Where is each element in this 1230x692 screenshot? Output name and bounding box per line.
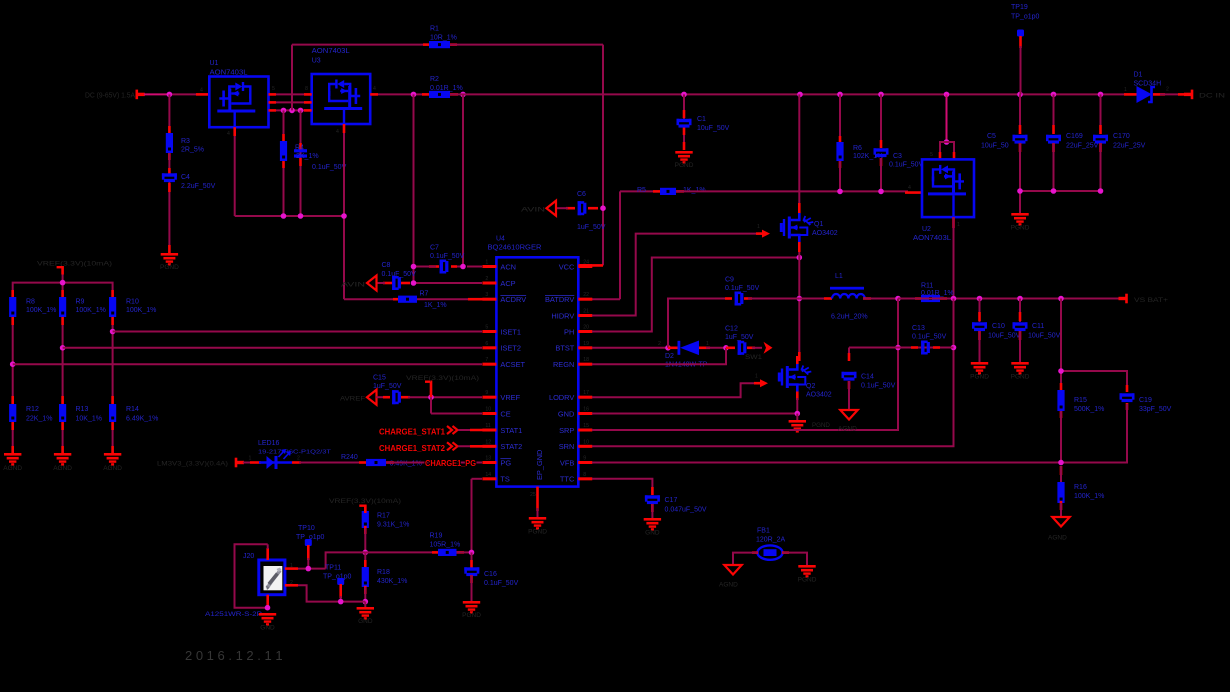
wire: R14 to ground (112, 422, 114, 453)
node: C6 tap on VCC column (600, 205, 606, 211)
ground AGND below R16 (open) (1048, 517, 1070, 542)
capacitor C19 (1120, 393, 1172, 413)
svg-text:2R_5%: 2R_5% (181, 147, 204, 154)
svg-text:500K_1%: 500K_1% (1074, 406, 1104, 413)
svg-text:1uF_50V: 1uF_50V (577, 224, 606, 231)
capacitor C6 (577, 191, 606, 231)
wire: C9 to switch node (744, 297, 799, 300)
svg-text:22uF_25V: 22uF_25V (1113, 143, 1146, 150)
svg-text:AGND: AGND (838, 426, 857, 433)
capacitor C169 (1046, 94, 1099, 191)
capacitor C9 (725, 277, 760, 306)
svg-text:VREF(3.3V)(10mA): VREF(3.3V)(10mA) (37, 261, 112, 268)
svg-text:R15: R15 (1074, 397, 1087, 404)
test point TP19 (1011, 4, 1040, 94)
svg-text:R6: R6 (853, 145, 862, 152)
ground PGND below U4 (528, 517, 547, 536)
wire: REGN to bootstrap diode (578, 348, 726, 364)
svg-text:PH: PH (564, 327, 574, 336)
wire: cap ground rail (1020, 191, 1101, 213)
svg-text:5: 5 (485, 325, 488, 331)
svg-text:FB1: FB1 (757, 528, 770, 535)
svg-text:AVIN: AVIN (341, 282, 365, 289)
svg-text:Q2: Q2 (806, 383, 815, 390)
svg-text:U4: U4 (496, 236, 505, 243)
port VS BAT (1119, 294, 1169, 304)
svg-text:R18: R18 (377, 569, 390, 576)
svg-text:5: 5 (930, 152, 933, 158)
svg-text:10R_1%: 10R_1% (430, 35, 457, 42)
svg-text:2: 2 (297, 456, 300, 462)
wire: switch node vertical (798, 258, 800, 362)
junction dots on link rows (281, 108, 304, 114)
svg-text:1uF_50V: 1uF_50V (373, 383, 402, 390)
node: R18 bottom junction (363, 599, 369, 605)
svg-text:SRN: SRN (559, 442, 575, 451)
svg-text:100K_1%: 100K_1% (126, 307, 156, 314)
svg-text:GND: GND (645, 530, 660, 537)
wire: ACP sense vertical (413, 94, 415, 283)
wire: VCC column from R1 net (579, 45, 603, 266)
wire: R15 column from battery rail (1060, 299, 1062, 463)
svg-text:R10: R10 (126, 299, 139, 306)
Q2 gate pin arrow (754, 374, 768, 388)
svg-text:R4: R4 (295, 145, 304, 152)
wire: R9 column (62, 317, 64, 404)
svg-text:R240: R240 (341, 454, 358, 461)
svg-text:BQ24610RGER: BQ24610RGER (488, 245, 542, 252)
svg-text:R11: R11 (921, 283, 933, 290)
svg-text:C7: C7 (430, 245, 439, 252)
wire: U1-U3 link row 3 (269, 109, 312, 112)
svg-text:VREF(3.3V)(10mA): VREF(3.3V)(10mA) (329, 498, 401, 505)
svg-text:2.2uF_50V: 2.2uF_50V (181, 183, 216, 190)
svg-text:R3: R3 (181, 138, 190, 145)
test point TP10 (296, 525, 325, 569)
svg-text:0.047uF_50V: 0.047uF_50V (665, 507, 707, 514)
port SW1 (745, 342, 773, 361)
svg-text:R12: R12 (26, 406, 39, 413)
svg-text:C9: C9 (725, 277, 734, 284)
wire: C6 to AVIN port (556, 207, 598, 210)
wire: C3 branch (880, 94, 882, 191)
ground PGND below C4 (160, 253, 179, 271)
ground PGND below C11 (1011, 362, 1030, 381)
connector J20 (205, 553, 293, 618)
capacitor C170 (1093, 94, 1146, 191)
svg-text:REGN: REGN (553, 360, 574, 369)
svg-text:33pF_50V: 33pF_50V (1139, 406, 1172, 413)
junction dots cap ground rail (1017, 188, 1103, 194)
svg-text:PGND: PGND (675, 162, 694, 169)
wire: LODRV to Q2 gate (578, 383, 760, 397)
svg-text:1: 1 (755, 374, 758, 380)
wire: gate rail of U1/U3 to ACDRV (235, 124, 400, 299)
svg-text:GND: GND (358, 618, 373, 625)
resistor R6 (836, 142, 883, 161)
svg-text:C5: C5 (987, 133, 996, 140)
wire: EP pad to ground (536, 487, 539, 517)
test point TP11 (323, 565, 352, 602)
svg-text:14: 14 (485, 472, 491, 478)
ground PGND below C16 (462, 601, 481, 619)
svg-text:2: 2 (1166, 87, 1169, 93)
junction dots on gate rail (281, 213, 347, 219)
svg-text:VS BAT+: VS BAT+ (1134, 297, 1168, 304)
wire: R13 to ground (62, 422, 64, 453)
svg-text:0.1uF_50V: 0.1uF_50V (382, 271, 417, 278)
svg-text:LM3V3_(3.3V)(0.4A): LM3V3_(3.3V)(0.4A) (157, 461, 228, 468)
svg-text:2: 2 (485, 276, 488, 282)
svg-text:18: 18 (583, 357, 589, 363)
svg-text:HIDRV: HIDRV (551, 311, 574, 320)
node: input junction at R3 column (167, 92, 173, 98)
svg-text:5: 5 (272, 86, 275, 92)
wire: ACP row (414, 282, 497, 285)
svg-text:TP19: TP19 (1011, 4, 1028, 11)
svg-text:10: 10 (583, 439, 589, 445)
svg-text:0.1uF_50V: 0.1uF_50V (430, 253, 465, 260)
svg-text:AVIN: AVIN (521, 207, 545, 214)
wire: R10 column (112, 317, 114, 404)
svg-text:430K_1%: 430K_1% (377, 578, 407, 585)
svg-text:DC IN: DC IN (1199, 93, 1225, 100)
svg-text:EP_GND: EP_GND (535, 450, 544, 480)
resistor R11 battery shunt (915, 283, 954, 303)
svg-text:21: 21 (583, 309, 589, 315)
wire: HIDRV to Q1 gate (578, 234, 762, 316)
svg-text:BATDRV: BATDRV (545, 295, 574, 304)
svg-text:VCC: VCC (559, 262, 575, 271)
ground AGND below R13 (53, 453, 72, 472)
svg-text:VREF(3.3V)(10mA): VREF(3.3V)(10mA) (406, 375, 479, 382)
svg-text:22K_1%: 22K_1% (26, 416, 52, 423)
wire: TS pin to thermistor network (472, 479, 497, 553)
port VREF(3.3V)(10mA) at R17 (329, 498, 401, 512)
svg-text:R9: R9 (76, 299, 85, 306)
wire: U1-U3 link row 2 (269, 101, 312, 104)
svg-text:PG: PG (500, 458, 511, 467)
wire: R7 to ACDRV pin (417, 298, 483, 300)
svg-text:100K_1%: 100K_1% (76, 307, 106, 314)
svg-text:0.1uF_50V: 0.1uF_50V (889, 162, 924, 169)
net label CHARGE1_STAT1 (379, 426, 496, 437)
svg-text:2 0 1 6 . 1 2 . 1 1: 2 0 1 6 . 1 2 . 1 1 (185, 648, 283, 663)
svg-text:TP10: TP10 (298, 525, 315, 532)
svg-text:TP11: TP11 (325, 565, 341, 572)
wire: FB1 left to AGND (733, 553, 758, 565)
svg-text:10: 10 (485, 407, 491, 413)
LED LED16 (243, 440, 332, 469)
wire: SRP sense (578, 299, 898, 431)
svg-text:C170: C170 (1113, 133, 1130, 140)
svg-text:ISET2: ISET2 (500, 344, 521, 353)
svg-text:1: 1 (706, 341, 709, 347)
node: SW/L1/C9 junction (797, 296, 803, 302)
svg-text:AON7403L: AON7403L (312, 48, 350, 55)
svg-text:C13: C13 (912, 325, 925, 332)
svg-text:C12: C12 (725, 326, 738, 333)
svg-text:AGND: AGND (3, 465, 22, 472)
resistor R8 (9, 297, 56, 317)
ground AGND below R14 (103, 453, 122, 472)
wire: TTC to C17 (578, 479, 652, 495)
wire: U3 output to R2 (370, 93, 430, 96)
wire: R2 to VCC filter rail (450, 93, 1130, 96)
diode D2 1N4148W-TP (658, 341, 726, 369)
wire: PH to switch node (578, 258, 799, 332)
transistor U2 AON7403L (battery P-FET module) (908, 152, 974, 242)
svg-text:STAT1: STAT1 (500, 426, 522, 435)
svg-text:R17: R17 (377, 513, 390, 520)
svg-text:22: 22 (583, 292, 589, 298)
wire: R4 column (283, 110, 285, 216)
date text (185, 648, 283, 663)
svg-text:3: 3 (485, 292, 488, 298)
svg-text:C16: C16 (484, 571, 497, 578)
svg-text:AGND: AGND (1048, 535, 1067, 542)
power port VREF(3.3V)(10mA) mid (406, 375, 479, 397)
port AVREF (340, 390, 377, 405)
svg-text:R2: R2 (430, 76, 439, 83)
resistor R3 (166, 133, 204, 154)
svg-text:U1: U1 (210, 60, 219, 67)
svg-text:19: 19 (583, 341, 589, 347)
wire: J20 pin2 row (285, 585, 365, 601)
capacitor C8 (382, 262, 417, 290)
svg-text:20: 20 (583, 325, 589, 331)
wire: ACN row (429, 265, 496, 268)
svg-text:15: 15 (583, 423, 589, 429)
svg-text:0.1uF_50V: 0.1uF_50V (484, 580, 519, 587)
resistor R18 (362, 552, 408, 601)
svg-text:PGND: PGND (528, 529, 547, 536)
wire: C19 parallel loop (1061, 371, 1127, 463)
wire: SRN sense (578, 299, 953, 447)
ferrite bead FB1 (752, 528, 789, 560)
svg-text:8: 8 (583, 472, 586, 478)
wire: divider top rail (13, 275, 113, 299)
svg-text:10uF_50V: 10uF_50V (697, 125, 730, 132)
svg-text:4: 4 (373, 86, 376, 92)
svg-text:VREF: VREF (500, 393, 520, 402)
svg-text:PGND: PGND (1011, 374, 1030, 381)
svg-text:9: 9 (583, 456, 586, 462)
resistor R13 (59, 404, 102, 423)
capacitor C1 (677, 116, 730, 132)
transistor Q2 AO3402 (778, 356, 832, 414)
svg-text:10uF_50V: 10uF_50V (1028, 333, 1061, 340)
svg-text:C15: C15 (373, 375, 386, 382)
junction dots on sense lines (895, 345, 956, 351)
node: VREF port junction (60, 280, 66, 286)
svg-text:TP_o1p0: TP_o1p0 (1011, 14, 1040, 21)
svg-text:LED16: LED16 (258, 440, 280, 447)
svg-text:100K_1%: 100K_1% (26, 307, 56, 314)
svg-text:A1251WR-S-2P: A1251WR-S-2P (205, 611, 262, 618)
wire: C7 left lead (414, 265, 440, 268)
svg-text:STAT2: STAT2 (500, 442, 522, 451)
svg-text:R14: R14 (126, 406, 139, 413)
svg-text:C6: C6 (577, 191, 586, 198)
svg-text:13: 13 (485, 456, 491, 462)
svg-text:R1: R1 (430, 26, 439, 33)
wire: CE branch (431, 397, 496, 413)
svg-text:AVREF: AVREF (340, 396, 365, 403)
svg-text:16: 16 (583, 407, 589, 413)
svg-text:C19: C19 (1139, 397, 1152, 404)
wire: R3/C4 branch down (168, 94, 170, 175)
node: PH/Q1 source junction (797, 255, 803, 261)
svg-text:6.49K_1%: 6.49K_1% (126, 416, 158, 423)
capacitor C11 (1013, 299, 1061, 363)
resistor R16 (1057, 466, 1104, 517)
node: J20 ground junction (265, 605, 271, 611)
wire: C2 column (300, 110, 302, 216)
resistor R4 (280, 141, 287, 161)
svg-text:4: 4 (908, 185, 911, 191)
port VREF(3.3V)(10mA) top-left (37, 261, 112, 275)
svg-text:ISET1: ISET1 (500, 327, 521, 336)
resistor R15 (1057, 390, 1104, 413)
ground AGND below R12 (3, 453, 22, 472)
capacitor C16 (464, 552, 518, 601)
transistor Q1 AO3402 (780, 94, 838, 257)
svg-text:1: 1 (485, 260, 488, 266)
svg-text:C1: C1 (697, 116, 706, 123)
wire: R8 column to ACSET row (12, 317, 14, 404)
wire: C8 to AVIN port (376, 282, 410, 285)
svg-text:ACDRV: ACDRV (500, 295, 526, 304)
port LM3V3 (3.3V)(0.4A) (157, 458, 244, 468)
svg-text:AO3402: AO3402 (812, 230, 838, 237)
node: Q2 source junction (795, 411, 801, 417)
ground AGND left of FB1 (open) (719, 565, 742, 589)
svg-text:0.1uF_50V: 0.1uF_50V (912, 334, 947, 341)
svg-text:ACSET: ACSET (500, 360, 525, 369)
svg-text:10uF_50: 10uF_50 (981, 143, 1009, 150)
resistor R7 (398, 291, 447, 310)
svg-text:AGND: AGND (103, 465, 122, 472)
wire: R12 to ground (12, 422, 14, 453)
wire: R17 to node (364, 528, 366, 552)
svg-text:SW1: SW1 (745, 354, 762, 361)
wire: U2 top pin loop (940, 142, 954, 159)
ground PGND below C10 (970, 362, 989, 381)
node: VREF/CE junction (428, 394, 434, 400)
svg-text:PGND: PGND (812, 422, 830, 429)
svg-text:0.1uF_50V: 0.1uF_50V (312, 164, 347, 171)
ground PGND below C1 (675, 151, 694, 169)
svg-text:L1: L1 (835, 273, 843, 280)
svg-text:0.01R_1%: 0.01R_1% (430, 85, 463, 92)
wire: FB1 right to PGND (783, 553, 808, 565)
svg-text:0.01R_1%: 0.01R_1% (921, 290, 954, 297)
resistor R5 (637, 187, 706, 195)
ground PGND below Q2 (789, 414, 831, 433)
svg-text:1uF_50V: 1uF_50V (725, 334, 754, 341)
wire: C15 to VREF pin (401, 396, 496, 399)
resistor R2 current shunt (429, 76, 463, 98)
svg-text:CE: CE (500, 409, 510, 418)
capacitor C10 (972, 299, 1021, 363)
node: loop top junction (1058, 368, 1064, 374)
wire: U2 drain feed (bright) (946, 94, 948, 142)
diode D1 SCD34H (1124, 72, 1186, 104)
svg-text:VFB: VFB (560, 458, 574, 467)
svg-text:DC (9-65V) 1.5A: DC (9-65V) 1.5A (85, 93, 135, 100)
node: TP11 junction (338, 599, 344, 605)
wire: R1 row (292, 44, 603, 46)
wire: ISET1 row (113, 331, 496, 333)
svg-text:U2: U2 (922, 226, 931, 233)
wire: input rail from port to U1 (144, 93, 209, 95)
svg-text:BTST: BTST (555, 344, 574, 353)
IC U4 BQ24610RGER (482, 236, 592, 499)
resistor R19 (365, 533, 471, 557)
wire: J20 shield loop to ground (235, 544, 268, 607)
ground PGND right of FB1 (798, 565, 817, 584)
svg-text:PGND: PGND (1011, 225, 1030, 232)
svg-text:0.1uF_50V: 0.1uF_50V (861, 383, 896, 390)
svg-text:R5: R5 (637, 187, 646, 194)
svg-text:0.1uF_50V: 0.1uF_50V (725, 285, 760, 292)
svg-text:C14: C14 (861, 374, 874, 381)
wire: R240 to PG pin (386, 461, 496, 464)
svg-text:C17: C17 (665, 497, 678, 504)
svg-text:Q1: Q1 (814, 221, 823, 228)
svg-text:11: 11 (485, 423, 490, 429)
junction dots divider taps (10, 329, 115, 367)
node: TS divider node (363, 550, 369, 556)
svg-text:CHARGE1_PG: CHARGE1_PG (425, 459, 476, 468)
capacitor C3 (874, 148, 924, 168)
resistor R1 (429, 26, 457, 49)
node: REGN/C12 junction (723, 345, 729, 351)
node: TS/C16 junction (469, 550, 475, 556)
svg-text:CHARGE1_STAT1: CHARGE1_STAT1 (379, 428, 445, 437)
node: L1/R11 junction (895, 296, 901, 302)
svg-text:C4: C4 (181, 174, 190, 181)
wire: C9 bootstrap branch (668, 299, 732, 348)
node: BTST/C9 junction (665, 345, 671, 351)
svg-text:C169: C169 (1066, 133, 1083, 140)
ground below J20 (259, 613, 276, 632)
resistor R14 (109, 404, 158, 423)
wire: ISET2 row (63, 347, 496, 349)
ground AGND below C14 (open) (838, 410, 858, 433)
svg-text:6.2uH_20%: 6.2uH_20% (831, 314, 868, 321)
wire: ACN sense vertical (462, 94, 464, 266)
capacitor C2 (294, 145, 347, 172)
svg-text:PGND: PGND (970, 374, 989, 381)
svg-text:TS: TS (500, 475, 510, 484)
svg-text:120R_2A: 120R_2A (756, 537, 786, 544)
capacitor C7 (430, 245, 465, 274)
svg-text:100K_1%: 100K_1% (1074, 493, 1104, 500)
Q1 gate pin arrow (756, 224, 770, 238)
port DC input (9-65V) (85, 90, 145, 100)
svg-text:GND: GND (558, 409, 574, 418)
svg-text:CHARGE1_STAT2: CHARGE1_STAT2 (379, 444, 445, 453)
svg-text:ACP: ACP (500, 279, 515, 288)
ground below C17 (644, 518, 661, 537)
svg-text:R7: R7 (420, 291, 429, 298)
wire: GND row (578, 412, 797, 415)
wire: gate rail to U2 (676, 191, 922, 192)
wire: battery rail to port (898, 298, 1121, 300)
wire: ACSET row (13, 363, 496, 365)
